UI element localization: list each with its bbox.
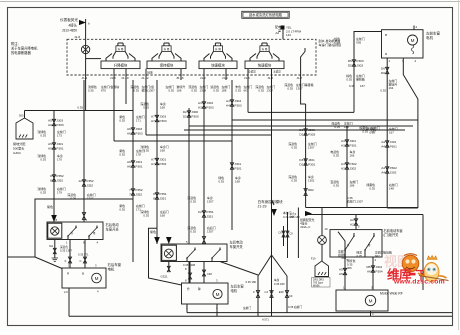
- svg-text:0.35 1308: 0.35 1308: [183, 263, 195, 267]
- svg-text:J313-4850: J313-4850: [62, 29, 77, 33]
- wire J1-8 drop to bus141: [113, 80, 115, 141]
- svg-text:A3: A3: [341, 139, 345, 143]
- svg-text:J1-10: J1-10: [121, 76, 129, 80]
- wire lamp3 drop: [321, 208, 323, 236]
- svg-text:J303: J303: [135, 127, 142, 131]
- svg-text:C48: C48: [207, 272, 212, 276]
- wire from frame left: [8, 256, 36, 258]
- bus y135: [146, 134, 272, 136]
- wire J1-12 drop x133: [132, 80, 134, 262]
- svg-text:0.35: 0.35: [333, 154, 339, 158]
- switch blades module M2: [152, 54, 158, 62]
- wire J1-1 drop to bus: [85, 80, 87, 111]
- svg-text:P301: P301: [56, 146, 64, 150]
- svg-text:RD2: RD2: [308, 188, 314, 192]
- svg-text:A9: A9: [48, 123, 52, 127]
- svg-text:左前车窗: 左前车窗: [426, 31, 440, 36]
- svg-text:J352: J352: [135, 192, 142, 196]
- svg-text:E39: E39: [279, 290, 284, 294]
- svg-text:0.35: 0.35: [334, 41, 340, 45]
- wire branch to A5 connector: [338, 232, 345, 290]
- svg-text:2.0: 2.0: [64, 290, 68, 294]
- svg-text:车身: 车身: [274, 278, 280, 282]
- svg-text:D3: D3: [299, 128, 303, 132]
- svg-text:178: 178: [136, 153, 141, 157]
- svg-text:0.35 180: 0.35 180: [246, 280, 257, 284]
- arrow courtesy lamp feed: [305, 211, 312, 216]
- arrow into illumination wire: [79, 20, 86, 25]
- svg-text:168: 168: [160, 106, 165, 110]
- wire motor pin3 diagonal: [403, 58, 418, 208]
- svg-text:A5: A5: [339, 272, 343, 276]
- svg-text:168: 168: [177, 89, 182, 93]
- svg-text:1307: 1307: [308, 146, 315, 150]
- switch skirt module M3: [211, 51, 214, 58]
- svg-text:右后车窗: 右后车窗: [108, 262, 122, 267]
- splice K: [68, 257, 71, 263]
- svg-text:P301: P301: [308, 162, 316, 166]
- bottom bus y316: [69, 315, 452, 317]
- lamp RR switch: [51, 227, 59, 235]
- switch blades RF: [345, 236, 354, 250]
- inline splice x84: [82, 213, 85, 220]
- svg-text:A4: A4: [226, 99, 230, 103]
- svg-text:0.35: 0.35: [218, 180, 224, 184]
- svg-text:B: B: [82, 272, 84, 276]
- wire motor pin1 down: [386, 58, 388, 208]
- svg-text:0.35: 0.35: [40, 191, 46, 195]
- svg-text:J1-8: J1-8: [110, 76, 116, 80]
- motor symbol RF: [365, 295, 375, 305]
- scan edge right: [458, 0, 460, 330]
- svg-text:模块)1307: 模块)1307: [142, 88, 156, 93]
- svg-text:A4: A4: [381, 166, 385, 170]
- relay module box M1: [101, 61, 140, 69]
- svg-text:J352: J352: [86, 183, 93, 187]
- svg-text:0.35: 0.35: [143, 214, 149, 218]
- svg-text:0.35: 0.35: [362, 130, 368, 134]
- svg-text:P301: P301: [349, 143, 357, 147]
- svg-text:D3: D3: [299, 158, 303, 162]
- switch blades module M3: [204, 54, 210, 62]
- svg-text:P301: P301: [390, 144, 398, 148]
- bus y312: [187, 312, 452, 314]
- svg-text:1.6: 1.6: [264, 290, 268, 294]
- wire right drop x423: [422, 215, 424, 291]
- svg-text:0.35: 0.35: [77, 106, 83, 110]
- left front window motor box: [382, 30, 424, 58]
- wire LR motor pin2 to bus: [186, 304, 188, 313]
- svg-text:G321: G321: [161, 275, 168, 279]
- svg-text:D5: D5: [348, 63, 352, 67]
- svg-text:A 571: A 571: [262, 318, 269, 322]
- svg-text:J34A~C: J34A~C: [300, 225, 310, 229]
- connector A5 right: [343, 268, 346, 274]
- svg-text:M: M: [369, 298, 373, 303]
- wire RR motor to bottom bus: [68, 288, 70, 316]
- svg-text:P302: P302: [349, 162, 357, 166]
- logo chick mascot: [424, 263, 439, 282]
- svg-text:P303: P303: [308, 132, 316, 136]
- RF window switch box: [330, 230, 382, 257]
- svg-text:J303: J303: [206, 101, 213, 105]
- C8 C9 splices upper: [283, 226, 285, 246]
- connector K2 P351 x204: [202, 211, 205, 217]
- PTC squiggle under motor: [411, 45, 414, 54]
- svg-text:164: 164: [389, 86, 394, 90]
- relay module box M3: [199, 61, 237, 69]
- svg-text:J303: J303: [356, 63, 363, 67]
- svg-text:右后电动: 右后电动: [106, 222, 120, 227]
- label under right pentagon: [312, 278, 331, 288]
- splice x190: [188, 273, 191, 279]
- right vertical x298: [297, 208, 299, 259]
- svg-text:车窗开关: 车窗开关: [106, 226, 120, 231]
- svg-text:J1-6: J1-6: [244, 76, 250, 80]
- svg-text:J301: J301: [234, 162, 241, 166]
- svg-text:J5-16: J5-16: [176, 76, 184, 80]
- switch blades module M4: [250, 54, 256, 62]
- bus y126: [189, 125, 413, 127]
- svg-text:7: 7: [129, 192, 131, 196]
- connector D5 P303/J303: [352, 60, 355, 66]
- wire A3 column x347: [346, 126, 348, 208]
- relay module box M2: [147, 61, 186, 69]
- splice C x204: [202, 270, 205, 276]
- wire J1-10 drop: [125, 80, 127, 104]
- svg-text:0.35 1307: 0.35 1307: [60, 248, 72, 252]
- svg-text:A7: A7: [151, 162, 155, 166]
- wire pentagon to bus: [24, 111, 26, 119]
- svg-text:全遮亮: 全遮亮: [248, 70, 256, 74]
- svg-text:168: 168: [235, 180, 240, 184]
- bus y207: [306, 207, 418, 209]
- svg-text:白车身控制模块: 白车身控制模块: [258, 199, 284, 204]
- svg-text:左后电动: 左后电动: [230, 240, 244, 245]
- svg-text:0.35: 0.35: [291, 179, 297, 183]
- svg-text:升 降: 升 降: [215, 47, 221, 51]
- svg-text:P352: P352: [135, 188, 143, 192]
- wire J5-16 drop x157: [145, 80, 147, 135]
- motor symbol LR: [213, 289, 222, 298]
- svg-text:A4: A4: [381, 140, 385, 144]
- svg-text:J302: J302: [349, 166, 356, 170]
- svg-text:升 降: 升 降: [164, 47, 170, 51]
- svg-text:P304: P304: [375, 269, 383, 273]
- svg-text:A3: A3: [198, 101, 202, 105]
- title box: [242, 11, 289, 18]
- svg-text:保险箱: 保险箱: [356, 77, 365, 82]
- svg-text:接地分配: 接地分配: [13, 141, 25, 146]
- svg-text:升 降: 升 降: [262, 47, 268, 51]
- svg-text:电机: 电机: [231, 288, 238, 293]
- selector switch above module M4: [260, 46, 269, 52]
- svg-text:保持模块: 保持模块: [160, 63, 174, 68]
- wire x84 drop to switch: [83, 80, 85, 222]
- LR window switch box: [161, 244, 227, 262]
- svg-text:J301: J301: [349, 139, 356, 143]
- connector A7 J303 x157: [155, 115, 158, 121]
- svg-text:A3: A3: [341, 162, 345, 166]
- svg-text:7: 7: [129, 188, 131, 192]
- svg-text:0.35: 0.35: [235, 89, 241, 93]
- svg-text:A9: A9: [48, 146, 52, 150]
- svg-text:电机: 电机: [108, 267, 115, 272]
- svg-text:167: 167: [371, 130, 376, 134]
- svg-text:188: 188: [222, 89, 227, 93]
- svg-text:167: 167: [389, 131, 394, 135]
- svg-text:167: 167: [360, 84, 365, 88]
- bus y214: [306, 214, 423, 216]
- RR window motor box: [62, 268, 106, 288]
- svg-text:186: 186: [350, 184, 355, 188]
- svg-text:8: 8: [153, 196, 155, 200]
- svg-text:(门)锁开关: (门)锁开关: [384, 232, 400, 237]
- motor symbol left front: [408, 35, 418, 45]
- svg-text:179: 179: [57, 191, 62, 195]
- svg-text:0.35: 0.35: [291, 146, 297, 150]
- svg-text:168: 168: [160, 149, 165, 153]
- svg-text:紫色: 紫色: [47, 204, 53, 209]
- bus y112: [248, 111, 354, 113]
- ground distribution pentagon G304: [16, 118, 33, 139]
- lamp illumination in master switch: [85, 39, 87, 75]
- svg-text:0.35 571: 0.35 571: [78, 253, 89, 257]
- wire lamp to module 1: [86, 58, 101, 60]
- svg-text:0.35: 0.35: [88, 89, 94, 93]
- svg-text:8: 8: [50, 174, 52, 178]
- svg-text:A6: A6: [367, 269, 371, 273]
- svg-text:D6: D6: [381, 67, 385, 71]
- svg-text:1307: 1307: [267, 89, 274, 93]
- svg-text:670: 670: [101, 89, 106, 93]
- selector switch above module M3: [213, 46, 222, 52]
- svg-text:0.35: 0.35: [333, 184, 339, 188]
- svg-text:0.35: 0.35: [133, 89, 139, 93]
- svg-text:的电源断路器: 的电源断路器: [11, 50, 31, 55]
- splice tree from BCM wire: [258, 255, 287, 276]
- connector D3 J301 x305: [304, 159, 307, 165]
- svg-text:紫色: 紫色: [150, 229, 156, 234]
- svg-text:J304: J304: [375, 265, 382, 269]
- svg-text:刮水或清洗灯系统电路: 刮水或清洗灯系统电路: [249, 12, 283, 17]
- connector A7 J301 x157: [155, 158, 158, 164]
- splice symbols row: [256, 291, 259, 298]
- svg-text:附注:: 附注:: [11, 41, 19, 46]
- wires RR switch to motor: [69, 240, 71, 269]
- connector J301 x232: [230, 163, 233, 169]
- connector D2 J300 x189: [188, 108, 190, 244]
- svg-text:1307: 1307: [207, 200, 214, 204]
- connector A4 J301 on motor loop: [386, 141, 389, 147]
- svg-text:500室头: 500室头: [13, 145, 24, 150]
- LR window motor box: [182, 283, 229, 304]
- svg-text:A3: A3: [341, 166, 345, 170]
- connector 12 P352 x84: [82, 180, 85, 186]
- svg-text:D2: D2: [183, 114, 187, 118]
- svg-text:168: 168: [160, 214, 165, 218]
- window master switch dashed enclosure: [67, 39, 316, 75]
- svg-text:0.35: 0.35: [357, 254, 363, 258]
- svg-text:10: 10: [325, 227, 329, 231]
- svg-text:A4: A4: [381, 144, 385, 148]
- lamp sub-box RR switch: [48, 223, 62, 238]
- svg-text:J1-29: J1-29: [258, 204, 267, 208]
- svg-text:667: 667: [375, 254, 380, 258]
- selector switch above module M2: [162, 46, 171, 52]
- svg-text:A3: A3: [341, 143, 345, 147]
- svg-text:J303: J303: [234, 99, 241, 103]
- svg-text:12: 12: [78, 179, 82, 183]
- svg-text:0.35: 0.35: [119, 153, 125, 157]
- wire battery feed drop: [282, 30, 284, 40]
- svg-text:P301: P301: [159, 162, 167, 166]
- svg-text:D5: D5: [348, 59, 352, 63]
- connector 8 P352 x54: [52, 175, 55, 181]
- motor symbol RR: [92, 273, 102, 283]
- svg-text:J301: J301: [308, 158, 315, 162]
- svg-text:C9: C9: [289, 294, 293, 298]
- svg-text:D3: D3: [299, 132, 303, 136]
- connector 7 P352 x133: [131, 189, 134, 195]
- wire illumination drop: [85, 19, 87, 39]
- svg-text:0.35: 0.35: [349, 84, 355, 88]
- svg-text:A5: A5: [339, 268, 343, 272]
- svg-text:A4: A4: [381, 170, 385, 174]
- extra contact right of module M4: [301, 52, 305, 76]
- wire J1-6 drop x248: [247, 80, 249, 112]
- logo stick: [419, 276, 449, 281]
- svg-text:A2: A2: [350, 222, 354, 226]
- svg-text:K2: K2: [198, 210, 202, 214]
- svg-text:J1-8: J1-8: [74, 35, 80, 39]
- RR window switch box: [47, 222, 103, 240]
- svg-text:升降模块: 升降模块: [114, 63, 128, 68]
- svg-text:M: M: [411, 38, 415, 43]
- svg-text:J303: J303: [159, 115, 166, 119]
- svg-text:P301: P301: [135, 164, 143, 168]
- svg-text:0.35: 0.35: [346, 78, 352, 82]
- svg-text:P352: P352: [86, 179, 94, 183]
- connector A2: [354, 219, 357, 225]
- wires LR switch to motor: [189, 262, 191, 284]
- connector A5 J301 x54: [52, 143, 55, 149]
- connector A6 J303 x133: [131, 128, 134, 134]
- svg-text:0.35: 0.35: [143, 106, 149, 110]
- wire J1-7 drop x300.6: [301, 80, 306, 104]
- svg-text:B: B: [385, 33, 387, 37]
- RR switch lamp ground: [54, 240, 56, 259]
- svg-text:J352: J352: [56, 178, 63, 182]
- svg-text:170: 170: [57, 158, 62, 162]
- wire bottom link y208: [387, 207, 418, 209]
- svg-text:P303: P303: [135, 131, 143, 135]
- svg-text:J301: J301: [390, 140, 397, 144]
- lamp courtesy right: [318, 236, 327, 245]
- wire x189 below LR switch: [188, 262, 190, 284]
- svg-text:J302: J302: [390, 170, 397, 174]
- connector A3 P302 x347: [345, 163, 348, 169]
- svg-text:8: 8: [50, 178, 52, 182]
- svg-text:A6: A6: [127, 160, 131, 164]
- connector D6: [386, 67, 389, 73]
- selector switch above module M1: [116, 46, 125, 52]
- splice RD2: [304, 189, 307, 196]
- svg-text:P352: P352: [56, 174, 64, 178]
- pin 2 top of motor box: [413, 26, 415, 30]
- svg-text:接地: 接地: [147, 71, 153, 75]
- svg-text:366: 366: [347, 266, 352, 270]
- lamp sub-box LR switch: [162, 245, 177, 260]
- svg-text:0.35: 0.35: [40, 158, 46, 162]
- svg-text:D3: D3: [299, 162, 303, 166]
- connector A4 J303 x232: [230, 100, 233, 106]
- svg-text:D6: D6: [381, 71, 385, 75]
- svg-text:快速模块: 快速模块: [211, 63, 225, 68]
- svg-text:143: 143: [286, 33, 291, 37]
- arrow BCM: [271, 209, 277, 216]
- svg-text:P351: P351: [206, 210, 214, 214]
- svg-text:C: C: [79, 259, 81, 263]
- svg-text:K: K: [65, 259, 67, 263]
- bus y130: [184, 129, 405, 131]
- connector A4 P352: [386, 167, 389, 173]
- svg-text:车窗开关: 车窗开关: [230, 244, 244, 249]
- svg-text:0.35 180: 0.35 180: [274, 282, 285, 286]
- diagonal LR switch to splice column: [220, 262, 258, 276]
- svg-text:0.35: 0.35: [190, 200, 196, 204]
- svg-text:148: 148: [389, 187, 394, 191]
- svg-text:4接头: 4接头: [68, 23, 77, 28]
- svg-text:0.35: 0.35: [40, 134, 46, 138]
- motor wide RF box: [336, 290, 388, 311]
- svg-text:1301: 1301: [308, 179, 315, 183]
- wire motor feed via D5: [354, 32, 382, 113]
- wire J1-2 drop x204: [203, 80, 205, 244]
- svg-text:8: 8: [153, 192, 155, 196]
- svg-text:无遮亮: 无遮亮: [273, 70, 281, 74]
- svg-text:0.35: 0.35: [213, 89, 219, 93]
- svg-text:J303: J303: [308, 128, 315, 132]
- svg-text:1308: 1308: [200, 89, 207, 93]
- svg-text:Motor Wide RF: Motor Wide RF: [380, 292, 403, 296]
- svg-text:173: 173: [57, 134, 62, 138]
- svg-text:0.35: 0.35: [190, 230, 196, 234]
- switch skirt module M4: [257, 51, 260, 58]
- svg-text:0.35: 0.35: [191, 89, 197, 93]
- svg-text:0.35: 0.35: [119, 208, 125, 212]
- svg-text:降: 降: [198, 287, 201, 291]
- svg-text:G304: G304: [13, 151, 21, 155]
- bus left y110.5: [25, 110, 134, 112]
- svg-text:J301: J301: [56, 142, 63, 146]
- svg-text:仪表板荧光: 仪表板荧光: [60, 17, 78, 22]
- connector A3 J301 x347: [345, 140, 348, 146]
- svg-text:J1-7: J1-7: [296, 76, 302, 80]
- svg-text:171: 171: [136, 119, 141, 123]
- switch skirt module M1: [113, 51, 116, 58]
- svg-text:0.35 右前门: 0.35 右前门: [288, 305, 302, 309]
- svg-text:0.35: 0.35: [258, 89, 264, 93]
- svg-text:0.35: 0.35: [119, 119, 125, 123]
- svg-text:电机: 电机: [426, 35, 434, 40]
- svg-text:升: 升: [187, 287, 190, 291]
- wire A2 drop: [355, 215, 357, 230]
- svg-text:P303: P303: [206, 105, 214, 109]
- wire RF motor pin to bus: [370, 311, 372, 316]
- svg-text:X05: X05: [356, 41, 362, 45]
- svg-text:A6: A6: [127, 127, 131, 131]
